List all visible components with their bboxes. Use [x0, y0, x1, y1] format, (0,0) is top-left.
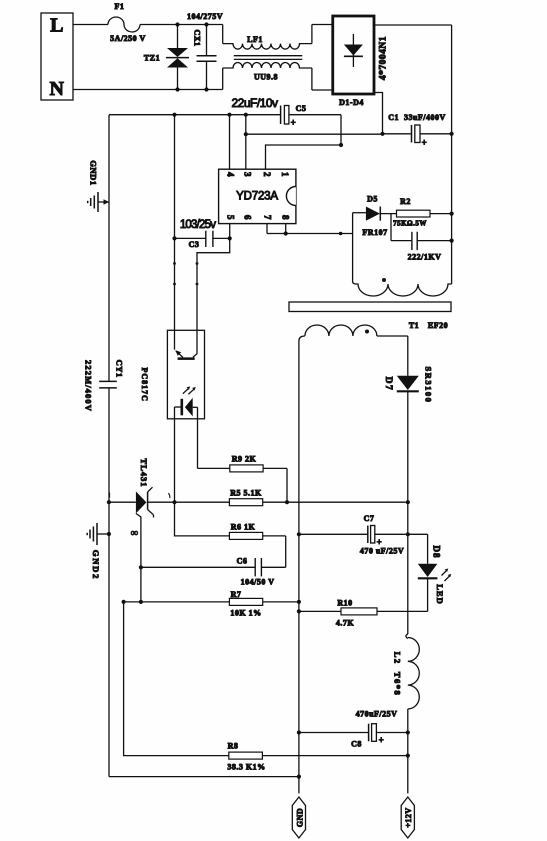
svg-text:103/25v: 103/25v	[180, 219, 216, 231]
svg-text:4.7K: 4.7K	[336, 619, 355, 628]
svg-text:TZ1: TZ1	[144, 54, 160, 63]
svg-text:C8: C8	[351, 740, 362, 749]
svg-text:+: +	[291, 118, 297, 128]
svg-text:YD723A: YD723A	[236, 191, 278, 203]
svg-text:5: 5	[225, 215, 235, 220]
svg-text:FR107: FR107	[362, 228, 387, 237]
svg-text:1: 1	[280, 172, 290, 177]
svg-text:PC817C: PC817C	[140, 367, 149, 401]
svg-text:∞: ∞	[131, 528, 139, 539]
svg-text:GND1: GND1	[88, 160, 98, 185]
svg-text:+: +	[379, 735, 385, 745]
svg-text:C5: C5	[296, 104, 307, 113]
svg-text:22uF/10v: 22uF/10v	[231, 96, 278, 110]
svg-text:+: +	[422, 138, 428, 148]
svg-text:R2: R2	[400, 197, 411, 206]
svg-text:C1 33uF/400V: C1 33uF/400V	[388, 113, 446, 122]
svg-text:R10: R10	[337, 598, 352, 607]
svg-text:222M/400V: 222M/400V	[84, 360, 94, 412]
svg-text:CY1: CY1	[114, 360, 124, 378]
svg-text:C6: C6	[237, 557, 248, 566]
svg-text:3: 3	[242, 172, 252, 177]
svg-text:C3: C3	[189, 240, 200, 249]
svg-text:R8: R8	[228, 742, 239, 751]
svg-text:470 uF/25V: 470 uF/25V	[360, 547, 404, 556]
svg-text:+12V: +12V	[404, 807, 413, 827]
svg-text:C7: C7	[364, 514, 375, 523]
svg-text:104/50 V: 104/50 V	[241, 578, 275, 587]
svg-text:D5: D5	[367, 195, 378, 204]
svg-text:4*7004N1: 4*7004N1	[378, 36, 388, 80]
svg-text:R9 2K: R9 2K	[232, 455, 257, 464]
svg-text:GND2: GND2	[91, 550, 101, 580]
svg-text:GND: GND	[295, 808, 304, 827]
svg-text:L2 T6*8: L2 T6*8	[392, 652, 402, 697]
svg-text:38.3 K1%: 38.3 K1%	[227, 763, 265, 772]
svg-text:F1: F1	[115, 2, 125, 11]
svg-text:D8: D8	[432, 546, 442, 559]
svg-text:EF20: EF20	[428, 321, 448, 330]
svg-text:4: 4	[225, 172, 235, 177]
svg-text:+: +	[377, 537, 383, 547]
svg-text:R7: R7	[231, 590, 242, 599]
svg-text:75KΩ.5W: 75KΩ.5W	[393, 220, 427, 228]
svg-text:D7: D7	[383, 377, 393, 392]
svg-text:2: 2	[262, 172, 272, 177]
svg-text:SR3100: SR3100	[423, 367, 433, 404]
svg-text:7: 7	[262, 215, 272, 220]
svg-text:222/1KV: 222/1KV	[408, 253, 442, 262]
svg-text:LF1: LF1	[247, 35, 263, 44]
svg-text:L: L	[50, 15, 64, 37]
svg-text:TL431: TL431	[139, 458, 149, 487]
svg-text:10K 1%: 10K 1%	[230, 609, 261, 618]
svg-text:6: 6	[242, 215, 252, 220]
svg-text:104/275V: 104/275V	[187, 12, 223, 21]
svg-text:N: N	[50, 78, 65, 100]
svg-text:R5 5.1K: R5 5.1K	[230, 489, 262, 498]
svg-text:8: 8	[280, 215, 290, 220]
svg-text:CX1: CX1	[193, 29, 202, 46]
svg-text:UU9.8: UU9.8	[254, 73, 278, 82]
svg-text:5A/250 V: 5A/250 V	[110, 34, 146, 43]
svg-text:T1: T1	[409, 321, 419, 330]
svg-text:470uF/25V: 470uF/25V	[356, 710, 398, 719]
svg-text:LED: LED	[435, 584, 445, 604]
svg-text:D1-D4: D1-D4	[339, 98, 364, 107]
svg-text:R6 1K: R6 1K	[231, 523, 256, 532]
